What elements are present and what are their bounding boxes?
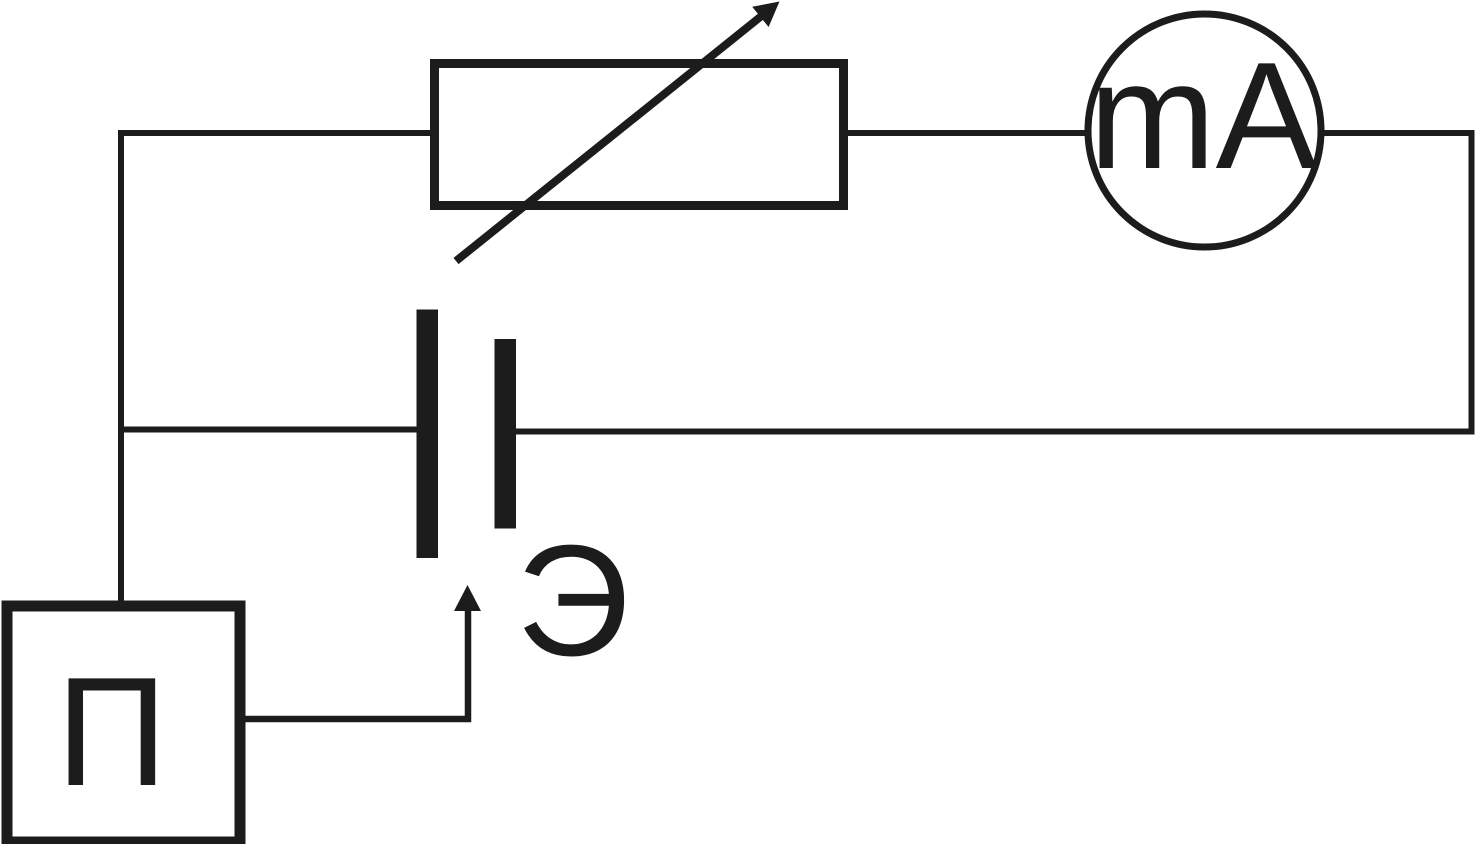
svg-text:П: П <box>56 645 167 818</box>
svg-text:mA: mA <box>1089 31 1318 201</box>
svg-text:Э: Э <box>516 513 630 689</box>
